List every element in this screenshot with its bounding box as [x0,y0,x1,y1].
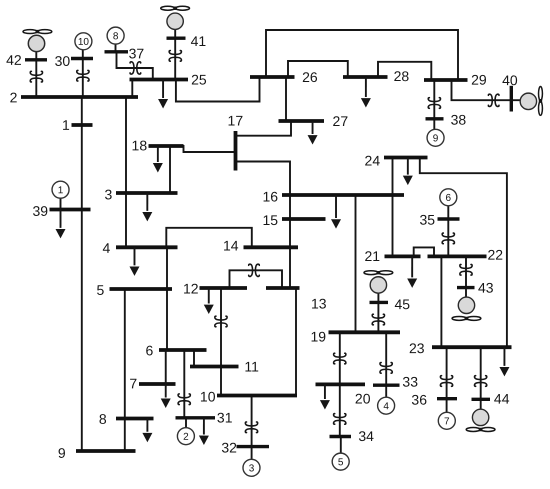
svg-text:28: 28 [394,68,410,84]
bus 20 [316,382,366,386]
load arrow bus 16 [331,195,341,229]
svg-text:3: 3 [249,463,255,474]
transformer 12-13 [249,264,260,276]
bar 40 [510,86,513,112]
transformer 29-40 [488,94,499,106]
generator G5 [332,453,349,470]
svg-text:39: 39 [33,203,49,219]
wire 6-31 [183,350,185,418]
load arrow bus 21 [407,256,417,287]
wire 35-22 chain [447,205,449,257]
bus 28 [343,75,388,79]
svg-text:13: 13 [311,296,327,312]
generator G8 [107,27,124,44]
wire 23-36 chain [446,347,448,413]
svg-text:27: 27 [333,113,349,129]
transformer 23-44 [475,376,487,387]
wire 12-13 [230,270,283,288]
svg-text:2: 2 [183,432,189,443]
bus 2 [21,95,138,99]
wire 26-28 [288,61,348,77]
generator G7 [438,412,455,429]
svg-text:43: 43 [478,280,494,296]
svg-text:36: 36 [411,392,427,408]
wire G42 circle lead [35,52,37,60]
wire 18-17 [184,146,236,152]
svg-text:10: 10 [200,388,216,404]
svg-text:31: 31 [217,409,233,425]
svg-text:6: 6 [145,342,153,358]
load arrow bus 27 [308,121,318,145]
wind turbine W44 [466,409,495,431]
wire 18-3 [169,146,171,193]
svg-text:34: 34 [358,428,374,444]
transformer 23-36 [440,376,452,387]
transformer 30-2 [77,70,89,81]
svg-text:9: 9 [433,133,439,144]
transformer 37-25 [130,62,141,74]
bar 34 [330,435,352,438]
wire G1 lead to bus 39 [60,197,62,209]
svg-text:1: 1 [62,117,70,133]
wire 2-3-4 [125,97,127,247]
bus 14 [244,245,299,249]
load arrow bus 23 [499,347,509,376]
svg-text:17: 17 [228,112,244,128]
wire 28-29 [378,62,431,80]
bus 7 [139,382,176,386]
bus 17 [234,131,238,171]
generator G1 [52,181,69,198]
transformer 19-33 [380,363,392,374]
svg-text:45: 45 [394,296,410,312]
load arrow bus 25 [158,79,168,108]
bar 38 [426,117,444,120]
wire 24-23 [420,158,507,348]
generator G9 [427,129,444,146]
transformer 22-43 [460,264,472,275]
bus 11 [190,365,239,369]
bus 24 [384,156,428,160]
load arrow bus 4 [129,247,139,276]
bus 15 [282,217,326,221]
transformer 12-11 [215,316,227,327]
svg-text:37: 37 [129,45,145,61]
svg-text:25: 25 [191,71,207,87]
bar 44 [472,398,491,401]
wind turbine W43 [452,297,481,320]
transformer 35-22 [442,233,454,244]
wire 19-33 chain [385,332,387,398]
transformer 10-32 [245,422,257,433]
bus 3 [116,191,178,195]
svg-text:4: 4 [383,401,389,412]
wire 26-29 top line [266,30,458,80]
svg-text:6: 6 [446,193,452,204]
bus 9 [76,449,136,453]
svg-text:2: 2 [10,89,18,105]
wire 20-34 chain [339,384,341,436]
bar 43 [457,286,475,289]
svg-text:3: 3 [105,186,113,202]
bar 36 [437,397,457,400]
svg-text:20: 20 [355,391,371,407]
bus 16 [282,193,404,197]
svg-text:7: 7 [444,416,450,427]
svg-text:22: 22 [487,247,503,263]
bus 12 [200,286,248,290]
bus 27 [279,119,325,123]
svg-text:19: 19 [310,329,326,345]
wire 29-40 [452,80,521,100]
bus 26 [250,75,295,79]
svg-text:9: 9 [58,445,66,461]
load arrow bus 8 [142,418,152,442]
svg-text:42: 42 [6,52,22,68]
load arrow bus 18 [153,146,163,173]
svg-text:15: 15 [263,212,279,228]
svg-text:16: 16 [263,188,279,204]
transformer 41-25 [169,51,181,62]
wire left trunk 2-1-39-9 [81,97,83,451]
svg-text:14: 14 [223,237,239,253]
svg-text:1: 1 [58,185,64,196]
svg-text:21: 21 [364,248,380,264]
bus 13 [266,286,300,290]
bus 19 [329,330,401,334]
wire 4-14 [166,228,252,248]
bus 10 [217,394,297,398]
bus 6 [159,348,207,352]
wire 5-8-9 [124,289,126,451]
svg-text:32: 32 [221,439,237,455]
wire G3 lead [251,447,253,460]
bus 21 [385,254,421,258]
generator G10 [75,33,92,50]
transformer 6-31 [178,394,190,405]
bus 29 [424,78,468,82]
svg-text:11: 11 [244,358,259,374]
wire 4-5-6 [166,247,168,350]
transformer 42-2 [30,71,42,82]
bar 35 [438,217,460,220]
wire 27-17 [236,121,292,136]
svg-text:24: 24 [365,153,381,169]
svg-text:7: 7 [129,375,137,391]
svg-text:26: 26 [302,69,318,85]
bus 5 [110,287,173,291]
bar 45 [370,301,389,304]
bus 23 [432,345,512,349]
wind turbine W45 [364,271,393,293]
wire 45-19 chain [377,293,379,332]
svg-text:12: 12 [183,280,199,296]
wire G2 lead [185,418,187,429]
bar 41 [167,37,186,40]
generator G4 [378,397,395,414]
svg-text:23: 23 [409,340,425,356]
wire 26-27 [285,77,287,121]
wire G8 lead to bar 37 [115,43,117,51]
wire 41 chain [174,30,176,80]
svg-text:41: 41 [191,33,207,49]
bus 1 [72,123,93,127]
svg-text:5: 5 [338,457,344,468]
svg-text:30: 30 [55,53,71,69]
load arrow bus 39 [56,209,66,238]
wire 6-11 [193,350,195,367]
wire G42 lead to bus 2 [35,60,37,97]
wire 14-13 [289,247,291,288]
svg-text:29: 29 [471,72,487,88]
bus 4 [116,245,178,249]
wire 21-22 bump [414,247,434,256]
wire 19-20 chain [339,332,341,384]
wire 22-23 [440,256,442,347]
generator G6 [440,189,457,206]
bus 18 [149,144,184,148]
svg-text:8: 8 [99,411,107,427]
transformer 45-19 [372,314,384,325]
wind turbine W42 [23,30,52,52]
wind turbine W40 [520,87,542,116]
svg-text:10: 10 [78,37,90,48]
wire 23-44 chain [480,347,482,408]
wire 29-38 chain [433,80,435,129]
load arrow bus 3 [142,193,152,222]
bus 22 [428,254,487,258]
generator G2 [177,428,194,445]
load arrow bus 20 [320,384,330,409]
wire 24-16-21 [392,158,394,257]
svg-text:5: 5 [96,282,104,298]
bar 42 [25,58,47,61]
transformer 19-20 [334,353,346,364]
svg-text:35: 35 [420,212,436,228]
wind turbine W41 [161,6,190,29]
wire 16-19 [355,195,357,332]
bus 8 [116,417,154,421]
wire 2-25 [131,80,133,98]
load arrow bus 12 [204,288,214,314]
svg-text:4: 4 [102,240,110,256]
svg-text:18: 18 [132,137,148,153]
svg-text:40: 40 [502,72,518,88]
bar 30 [71,57,93,60]
wire 17-16-15-14 [236,162,291,248]
wire G30 lead to bus 2 [82,49,84,97]
bar 31 [176,416,216,419]
generator G3 [243,459,260,476]
load arrow bus 28 [361,77,371,108]
transformer 20-34 [334,414,346,425]
wire 12-11-10 [220,288,222,396]
wire 13-10 [295,288,297,396]
wire 6-7 and load arrow bus 7 [161,350,171,408]
load arrow bus 24 [403,158,413,186]
bar 33 [373,384,400,387]
svg-text:8: 8 [113,31,119,42]
wire 22-43 chain [465,256,467,297]
bus 25 [130,78,189,82]
bar 32 [237,445,270,448]
wire G5 lead [340,437,342,455]
load arrow bus 31 [199,418,209,445]
wire 10-32 [251,396,253,447]
bus 39 [50,208,91,212]
svg-text:33: 33 [402,374,418,390]
wire 25-26 [176,77,260,102]
svg-text:38: 38 [451,112,467,128]
bar 37 [105,50,129,53]
svg-text:44: 44 [494,391,510,407]
wire 37-25 [117,52,153,80]
transformer 29-38 [428,98,440,109]
